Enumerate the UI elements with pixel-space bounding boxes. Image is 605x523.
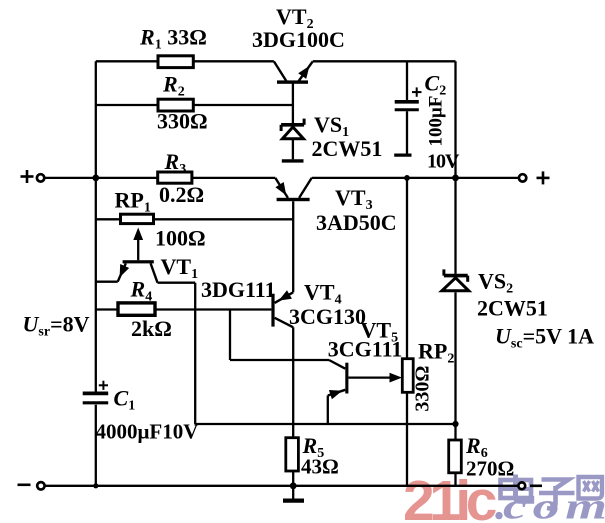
svg-text:3AD50C: 3AD50C <box>316 210 397 235</box>
svg-text:R1​ 33Ω: R1​ 33Ω <box>139 25 207 53</box>
svg-text:3DG100C: 3DG100C <box>252 27 345 52</box>
svg-text:3CG130: 3CG130 <box>289 304 366 329</box>
svg-text:270Ω: 270Ω <box>466 457 514 481</box>
svg-text:Usr​=8V: Usr​=8V <box>23 311 90 339</box>
svg-text:0.2Ω: 0.2Ω <box>159 182 204 207</box>
svg-text:43Ω: 43Ω <box>301 454 339 478</box>
svg-text:4000μF10V: 4000μF10V <box>96 419 199 443</box>
svg-text:100μF: 100μF <box>426 96 447 147</box>
svg-text:330Ω: 330Ω <box>157 109 208 134</box>
svg-text:2CW51: 2CW51 <box>312 136 383 161</box>
svg-text:2CW51: 2CW51 <box>477 296 548 321</box>
svg-text:Usc​=5V 1A: Usc​=5V 1A <box>495 324 594 352</box>
svg-text:10V: 10V <box>427 151 460 173</box>
svg-text:330Ω: 330Ω <box>412 366 434 412</box>
svg-text:2kΩ: 2kΩ <box>131 316 172 341</box>
svg-text:100Ω: 100Ω <box>155 226 206 251</box>
svg-text:3CG111: 3CG111 <box>328 337 403 362</box>
svg-text:3DG111: 3DG111 <box>201 277 276 302</box>
